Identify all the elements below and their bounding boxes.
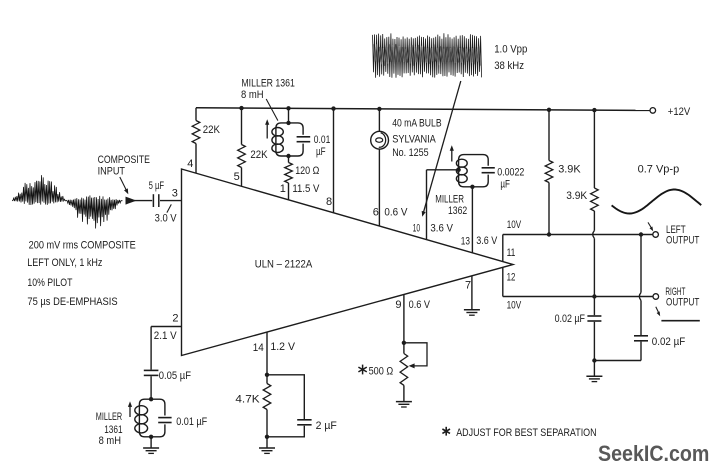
svg-text:0.6 V: 0.6 V [409, 299, 431, 311]
wire: rail to tank L1 top [288, 108, 290, 123]
capacitor C2 0.01uF in tank [297, 137, 311, 142]
svg-text:2 µF: 2 µF [316, 420, 337, 432]
wire: rail to pin 8 [333, 109, 335, 213]
node junction R4 left output line [547, 232, 551, 236]
svg-text:3.0 V: 3.0 V [155, 213, 178, 225]
node junction on rail at R2 [239, 106, 243, 110]
svg-text:2: 2 [172, 313, 178, 325]
svg-text:OUTPUT: OUTPUT [666, 234, 700, 246]
svg-text:ADJUST FOR BEST SEPARATION: ADJUST FOR BEST SEPARATION [456, 427, 596, 439]
svg-text:1: 1 [280, 183, 286, 195]
svg-text:10% PILOT: 10% PILOT [27, 277, 72, 289]
node: left output sine waveform [612, 190, 702, 214]
svg-text:40 mA BULB: 40 mA BULB [392, 117, 441, 129]
ground at pin 14 RC [259, 447, 275, 449]
wire: pin 12 to right output line [502, 267, 504, 296]
node: tank L2 tap junction [456, 168, 460, 172]
svg-text:0.6 V: 0.6 V [384, 206, 408, 218]
svg-text:120 Ω: 120 Ω [295, 165, 319, 177]
wire: pin 10 tap to tank L2 [427, 169, 459, 171]
svg-text:11.5 V: 11.5 V [292, 183, 320, 195]
inductor L2 coil loops [456, 159, 467, 182]
svg-text:38 kHz: 38 kHz [494, 60, 524, 72]
wire: C5 to ground node [593, 322, 595, 361]
svg-text:8 mH: 8 mH [99, 435, 121, 447]
wire: C6 to ground node [594, 342, 641, 361]
wire: rail to R2 [241, 108, 243, 144]
svg-text:1362: 1362 [448, 205, 467, 217]
ground at tank L3 [143, 447, 159, 449]
ground at pot [396, 401, 412, 403]
svg-text:6: 6 [373, 206, 379, 218]
inductor L1 MILLER 1361 8mH tank frame [276, 123, 303, 156]
inductor L2 MILLER 1362 tank frame [459, 155, 489, 187]
svg-text:MILLER: MILLER [96, 411, 122, 423]
svg-text:3: 3 [172, 188, 178, 200]
node: tank L1 bottom junction [286, 154, 290, 158]
node: pointer to right output trace [656, 307, 660, 316]
svg-text:1.2 V: 1.2 V [270, 341, 295, 353]
capacitor C9 2uF branch wires [267, 375, 304, 437]
wire: left output line [503, 234, 653, 236]
node: leader from 38kHz trace to pin 10 [422, 81, 461, 217]
svg-text:2.1 V: 2.1 V [154, 330, 177, 342]
lamp DS1 40mA Sylvania 1255 [371, 131, 389, 149]
wire: pin 2 to C7 [151, 327, 181, 370]
svg-text:10V: 10V [507, 299, 522, 311]
ground at output caps [586, 375, 602, 377]
svg-text:12: 12 [507, 272, 516, 284]
capacitor C6 0.02uF [634, 336, 648, 341]
inductor L3 coil loops [135, 406, 148, 433]
svg-text:0.02 µF: 0.02 µF [652, 336, 686, 348]
wire: rail to R4 [548, 110, 550, 161]
svg-text:3.9K: 3.9K [558, 163, 581, 175]
svg-text:7: 7 [465, 279, 471, 291]
op-amp U1 ULN-2122A body [182, 169, 514, 356]
node: output ground junction [592, 358, 596, 362]
capacitor C3 0.0022uF in tank [482, 168, 495, 173]
capacitor C8 0.01uF in tank [158, 418, 171, 423]
node: leader line 8mH to L1 [266, 99, 278, 121]
inductor L3 MILLER 1361 8mH tank frame [139, 399, 165, 437]
svg-text:SeekIC.com: SeekIC.com [598, 441, 709, 466]
svg-text:MILLER: MILLER [435, 194, 464, 206]
svg-text:MILLER 1361: MILLER 1361 [241, 77, 295, 89]
terminal: LEFT OUTPUT [653, 232, 659, 238]
wire: R4 to left output line [548, 183, 550, 235]
svg-text:13: 13 [461, 235, 470, 247]
node: pot top junction [402, 341, 406, 345]
wire: tank L3 to ground [150, 437, 152, 448]
wire: R2 to pin 5 [241, 168, 243, 187]
svg-text:5 µF: 5 µF [149, 180, 165, 192]
svg-text:4: 4 [187, 158, 193, 170]
wire: input to C1 [134, 200, 152, 202]
node: 3.0V marker slash [167, 204, 171, 212]
svg-text:3.9K: 3.9K [566, 190, 588, 202]
svg-text:22K: 22K [203, 124, 221, 136]
svg-text:0.02 µF: 0.02 µF [555, 313, 586, 325]
wire: left output line down to C6 with crossover [639, 235, 641, 336]
svg-text:LEFT ONLY, 1 kHz: LEFT ONLY, 1 kHz [27, 257, 102, 269]
svg-text:0.7 Vp-p: 0.7 Vp-p [638, 163, 680, 175]
node: tuning arrow for L2 [450, 145, 454, 161]
node: pin 14 RC top junction [265, 373, 269, 377]
value label 0.01 uF [314, 134, 331, 158]
svg-text:5: 5 [234, 171, 240, 183]
svg-text:500 Ω: 500 Ω [369, 365, 394, 377]
wire: rail to bulb DS1 [378, 109, 380, 131]
node junction C6 left output line [639, 232, 643, 236]
wire: RC to ground [266, 437, 268, 448]
node: tuning arrow for L3 [128, 401, 132, 417]
node: asterisk footnote [442, 427, 450, 436]
node: asterisk at 500 ohm [358, 365, 366, 375]
node: tank L3 bottom junction [149, 435, 153, 439]
capacitor C1 5uF [153, 194, 158, 207]
node: 38 kHz waveform block [373, 33, 482, 77]
wire: rail to R1 [195, 108, 197, 121]
wire: tank L2 to pin 13 [471, 187, 473, 253]
wire: R1 to pin 4 [195, 144, 197, 174]
svg-text:75 µs DE-EMPHASIS: 75 µs DE-EMPHASIS [27, 296, 117, 308]
resistor R7 4.7K [263, 375, 271, 437]
node junction on rail at bulb [377, 107, 381, 111]
node junction on rail at pin 8 [331, 106, 335, 110]
potentiometer R6 500 ohm [400, 343, 408, 402]
svg-text:3.6 V: 3.6 V [476, 235, 498, 247]
capacitor C9 2uF [297, 420, 311, 425]
svg-text:10: 10 [413, 222, 421, 234]
wire: C1 to pin 3 [160, 200, 182, 202]
terminal: +12V [650, 108, 656, 114]
wire: pin 10 riser [426, 170, 428, 240]
svg-text:OUTPUT: OUTPUT [666, 296, 700, 308]
svg-text:4.7K: 4.7K [235, 394, 260, 406]
wire: right output line [503, 296, 653, 298]
svg-text:11: 11 [507, 247, 516, 259]
resistor R4 3.9K [545, 161, 553, 183]
node: tank L1 top junction [286, 121, 290, 125]
wire: pin 7 to ground [471, 276, 473, 310]
svg-text:No. 1255: No. 1255 [392, 147, 428, 159]
svg-text:SYLVANIA: SYLVANIA [392, 133, 436, 145]
terminal: RIGHT OUTPUT [653, 294, 659, 300]
svg-text:µF: µF [500, 179, 510, 191]
svg-text:1.0 Vpp: 1.0 Vpp [494, 43, 527, 55]
wire: right output line to C5 [593, 297, 595, 316]
svg-text:µF: µF [316, 146, 326, 158]
ground at pin 7 [464, 309, 480, 311]
wire: ground stub [593, 361, 595, 377]
label: MILLER 1362 [435, 194, 467, 217]
node: input signal arrow [126, 197, 137, 205]
node: composite input leader arrow [120, 177, 129, 194]
node: right output flat trace [661, 320, 699, 322]
svg-text:200 mV rms COMPOSITE: 200 mV rms COMPOSITE [29, 239, 136, 251]
wire: bulb to pin 6 [378, 149, 380, 226]
svg-text:22K: 22K [250, 149, 268, 161]
svg-text:0.01 µF: 0.01 µF [176, 416, 207, 428]
node junction on rail at R5 [592, 108, 596, 112]
inductor L1 coil loops [272, 128, 283, 153]
wire: +12V supply rail [196, 108, 650, 111]
wire: pin 11 to left output line [502, 235, 504, 262]
svg-text:10V: 10V [507, 219, 522, 231]
capacitor C7 0.05uF [144, 370, 159, 375]
node: tuning arrow for L1 [265, 119, 269, 138]
svg-text:0.05 µF: 0.05 µF [159, 370, 191, 382]
svg-text:8 mH: 8 mH [241, 89, 264, 101]
resistor R3 120 ohm [285, 156, 293, 183]
wire: R5 down to right output line with crossover [593, 211, 595, 297]
svg-text:14: 14 [253, 342, 264, 354]
resistor R5 3.9K [591, 188, 599, 211]
resistor R1 22K [192, 121, 200, 144]
svg-text:ULN – 2122A: ULN – 2122A [255, 259, 313, 271]
svg-text:INPUT: INPUT [98, 165, 126, 177]
svg-text:0.01: 0.01 [314, 134, 331, 146]
svg-text:0.0022: 0.0022 [497, 167, 524, 179]
svg-text:COMPOSITE: COMPOSITE [98, 154, 150, 166]
resistor R2 22K [238, 145, 246, 168]
capacitor C5 0.02uF [587, 316, 601, 321]
label: COMPOSITE INPUT [98, 154, 150, 177]
svg-text:3.6 V: 3.6 V [430, 222, 453, 234]
node: pin 14 RC bottom junction [265, 435, 269, 439]
node: pointer to left output [648, 222, 653, 231]
wire: rail to R5 [593, 110, 595, 188]
wire: pin 9 to pot [403, 294, 405, 342]
svg-text:+12V: +12V [668, 106, 691, 118]
wire: C7 to tank L3 [150, 376, 152, 399]
svg-text:8: 8 [326, 196, 332, 208]
node junction R5 right output line [592, 294, 596, 298]
node: tank L3 top junction [149, 397, 153, 401]
node junction on rail at tank L1 [286, 106, 290, 110]
value label 0.0022 uF [497, 167, 524, 191]
node junction on rail at R4 [547, 108, 551, 112]
node: tank L2 bottom junction [470, 185, 474, 189]
node: composite input waveform [12, 175, 123, 228]
wire: pin 14 down [266, 332, 268, 375]
wire: R3 to pin 1 [288, 183, 290, 200]
svg-text:9: 9 [395, 299, 401, 311]
node: pot wiper loop [404, 343, 427, 369]
